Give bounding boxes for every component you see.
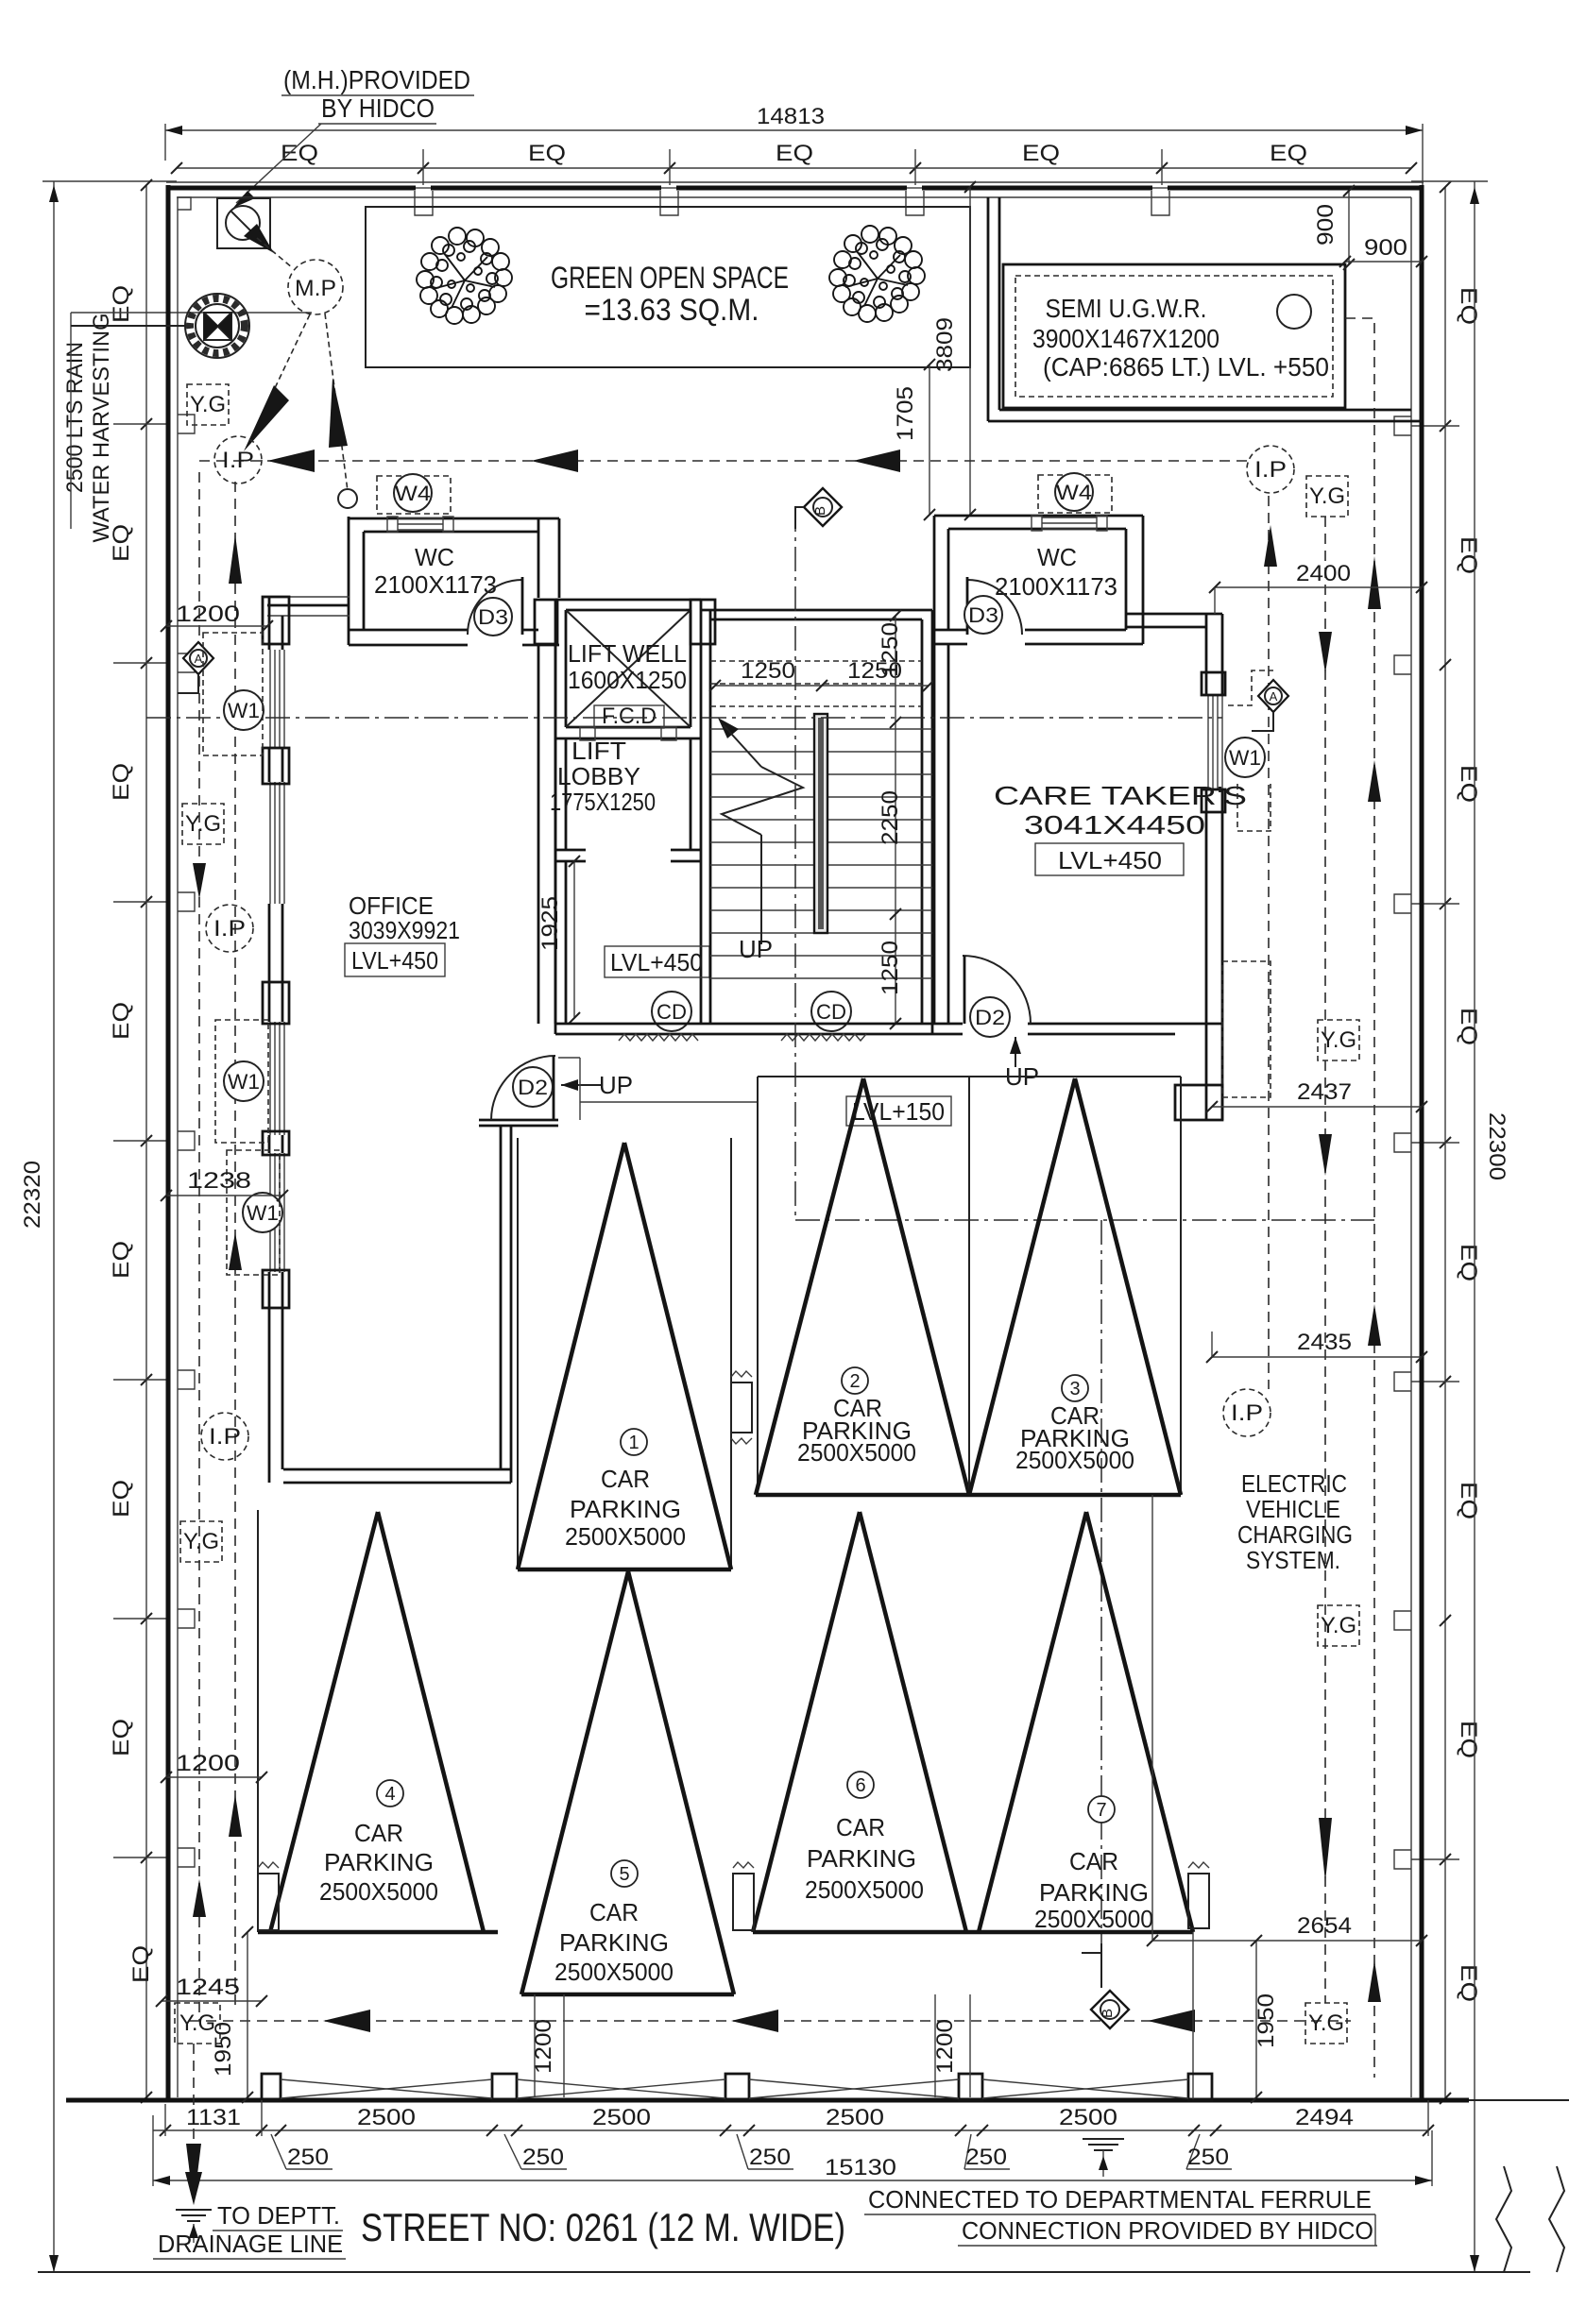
svg-text:UP: UP	[599, 1071, 633, 1099]
svg-text:250: 250	[749, 2145, 791, 2170]
parking stall 2	[756, 1077, 969, 1495]
building south wall (core strip)	[555, 1024, 1222, 1034]
LVL+150 box	[846, 1096, 951, 1126]
svg-text:CD: CD	[657, 1000, 687, 1024]
dim 1200 left lower	[161, 1751, 267, 1783]
svg-text:2654: 2654	[1297, 1913, 1352, 1939]
svg-text:2500X5000: 2500X5000	[805, 1875, 924, 1904]
svg-text:W1: W1	[1229, 746, 1261, 770]
dim 15130	[153, 2115, 1432, 2186]
main EW centerline	[146, 717, 1222, 719]
svg-text:2500X5000: 2500X5000	[565, 1522, 686, 1551]
svg-text:2250: 2250	[878, 790, 903, 845]
LVL+450 box core	[605, 946, 709, 977]
MH square symbol	[217, 198, 274, 253]
svg-text:I.P: I.P	[1231, 1400, 1263, 1426]
svg-text:I.P: I.P	[1254, 457, 1287, 483]
stair up arrow line	[718, 718, 803, 963]
SEMI UGWR tank box	[1003, 264, 1345, 408]
svg-text:1250: 1250	[741, 658, 795, 684]
svg-text:PARKING: PARKING	[807, 1844, 916, 1873]
svg-text:1200: 1200	[176, 1751, 240, 1776]
TO DEPTT note	[153, 2201, 346, 2259]
svg-text:2500X5000: 2500X5000	[797, 1438, 916, 1467]
svg-text:TO DEPTT.: TO DEPTT.	[217, 2201, 340, 2230]
office wing north wall	[263, 597, 350, 644]
svg-text:M.P: M.P	[295, 276, 336, 301]
svg-text:EQ: EQ	[1456, 1244, 1481, 1281]
pillar between stalls 1-2	[731, 1371, 752, 1444]
svg-text:LOBBY: LOBBY	[557, 762, 640, 790]
YG box right lower	[1318, 1605, 1359, 1646]
svg-text:1950: 1950	[211, 2022, 236, 2077]
break symbol right	[1469, 2100, 1569, 2272]
dim 1705 vertical	[893, 359, 935, 520]
right EQ dimension line	[1411, 181, 1481, 2104]
door D3 right	[964, 577, 1022, 635]
YG box left 1	[187, 384, 229, 425]
W1 circle left 1	[203, 633, 264, 755]
svg-text:WC: WC	[415, 543, 454, 571]
svg-text:1245: 1245	[176, 1975, 240, 2000]
WC right room walls	[934, 516, 1143, 644]
svg-text:2500: 2500	[1059, 2105, 1117, 2130]
svg-text:CD: CD	[816, 1000, 846, 1024]
W1 circle right	[1225, 738, 1271, 831]
svg-text:7: 7	[1096, 1800, 1106, 1821]
stair dim vertical 1250/2250/1250	[878, 610, 903, 1029]
svg-text:1131: 1131	[186, 2105, 241, 2130]
dim 2437 right	[1206, 1079, 1427, 1112]
svg-text:2500X5000: 2500X5000	[319, 1877, 438, 1906]
tree right	[829, 226, 925, 322]
svg-text:2435: 2435	[1297, 1330, 1352, 1355]
svg-text:3041X4450: 3041X4450	[1024, 810, 1205, 840]
svg-text:B: B	[1100, 2009, 1116, 2018]
WC right window W4	[1032, 516, 1107, 531]
svg-text:F.C.D: F.C.D	[602, 704, 657, 729]
compound wall / street edge bottom	[66, 2098, 1469, 2103]
dim 2435 right	[1206, 1330, 1427, 1363]
svg-text:2500X5000: 2500X5000	[554, 1958, 674, 1986]
lower lobby room walls	[555, 861, 701, 1034]
svg-text:I.P: I.P	[209, 1424, 241, 1450]
rain water harvesting note (rotated)	[62, 313, 312, 543]
IP circle left 1	[214, 436, 262, 483]
YG box right top	[1306, 476, 1348, 517]
svg-text:15130: 15130	[825, 2155, 896, 2180]
svg-text:STREET NO: 0261 (12 M. WIDE): STREET NO: 0261 (12 M. WIDE)	[361, 2205, 845, 2249]
svg-text:LIFT: LIFT	[571, 737, 626, 765]
svg-text:CONNECTED TO DEPARTMENTAL FERR: CONNECTED TO DEPARTMENTAL FERRULE	[868, 2185, 1372, 2214]
svg-text:250: 250	[287, 2145, 329, 2170]
SEMI UGWR enclosure walls	[988, 197, 1422, 421]
top dimension line 14813	[165, 104, 1423, 185]
svg-text:LVL+150: LVL+150	[852, 1097, 945, 1126]
dashed box right wall lower	[1222, 961, 1271, 1097]
rain harvesting pit symbol	[71, 294, 249, 358]
compound wall top	[166, 182, 1424, 197]
svg-text:250: 250	[522, 2145, 564, 2170]
svg-text:EQ: EQ	[109, 1719, 134, 1756]
top EQ dimension line	[171, 141, 1417, 185]
YG box right bottom	[1305, 2003, 1347, 2044]
door D2 left	[479, 1056, 633, 1126]
svg-text:1950: 1950	[1253, 1993, 1279, 2048]
svg-text:W4: W4	[395, 482, 431, 505]
lift lobby walls	[555, 738, 701, 861]
svg-text:Y.G: Y.G	[1321, 1027, 1356, 1053]
svg-text:Y.G: Y.G	[183, 1529, 219, 1554]
svg-text:VEHICLE: VEHICLE	[1246, 1495, 1340, 1523]
office south wall	[283, 1469, 511, 1483]
central NS centerline	[795, 507, 1374, 1943]
svg-text:EQ: EQ	[128, 1945, 154, 1983]
pillar left of stall 4	[258, 1862, 279, 1930]
svg-text:EQ: EQ	[1456, 765, 1481, 803]
parking stall 7	[979, 1512, 1193, 1933]
svg-text:EQ: EQ	[1456, 287, 1481, 325]
svg-text:3039X9921: 3039X9921	[349, 916, 460, 944]
svg-text:1200: 1200	[531, 2019, 556, 2074]
A diamond right	[1228, 670, 1288, 731]
svg-text:LVL+450: LVL+450	[610, 948, 703, 976]
care taker room walls	[934, 614, 1222, 1120]
svg-text:B: B	[812, 506, 828, 516]
svg-text:2100X1173: 2100X1173	[374, 570, 497, 599]
dim 1238 left	[161, 1168, 288, 1201]
drain line horizontal bottom	[189, 2010, 1351, 2032]
svg-text:2400: 2400	[1296, 561, 1351, 586]
svg-text:EQ: EQ	[1456, 1964, 1481, 2002]
left wall column notches	[178, 415, 195, 1867]
svg-text:A: A	[195, 652, 203, 666]
MP circle	[288, 260, 343, 314]
B symbol bottom	[1082, 1943, 1129, 2028]
dashed leaders MH-MP-IP	[244, 238, 357, 508]
svg-text:LVL+450: LVL+450	[351, 946, 438, 975]
svg-text:CAR: CAR	[601, 1465, 650, 1493]
svg-text:Y.G: Y.G	[1309, 483, 1345, 509]
MH note top-left	[233, 65, 474, 208]
pillar right of stall 7	[1188, 1862, 1209, 1928]
svg-text:6: 6	[855, 1775, 865, 1796]
care taker window W1 right	[1202, 672, 1225, 812]
svg-text:900: 900	[1364, 235, 1407, 261]
svg-text:1250: 1250	[878, 622, 903, 677]
svg-text:1: 1	[628, 1433, 639, 1453]
dim 1245 left bottom	[156, 1975, 267, 2007]
stair center rail	[814, 714, 827, 933]
svg-text:D2: D2	[975, 1006, 1005, 1029]
dim 3809 vertical	[932, 181, 976, 520]
threshold mats zigzag	[619, 1034, 866, 1041]
svg-text:4: 4	[384, 1784, 395, 1805]
svg-text:(CAP:6865 LT.) LVL. +550: (CAP:6865 LT.) LVL. +550	[1043, 352, 1329, 382]
dim 1950 left vertical	[211, 1926, 253, 2103]
svg-text:3: 3	[1069, 1379, 1080, 1399]
dim 900 horizontal right	[1339, 235, 1427, 267]
compound wall right	[1411, 185, 1422, 2102]
svg-text:2494: 2494	[1295, 2105, 1354, 2130]
lift well walls	[555, 600, 701, 740]
stair treads	[710, 729, 932, 978]
parking stall 3	[969, 1077, 1181, 1495]
dim 1200 bottom left vertical	[531, 1994, 564, 2097]
svg-text:Y.G: Y.G	[185, 811, 221, 837]
YG box left 3	[180, 1521, 222, 1562]
svg-text:CAR: CAR	[589, 1898, 639, 1926]
left EQ dimension line	[109, 179, 166, 2103]
svg-text:1775X1250: 1775X1250	[550, 788, 656, 816]
right court boundary	[1151, 1495, 1153, 1941]
svg-text:EQ: EQ	[528, 141, 566, 166]
svg-text:PARKING: PARKING	[559, 1928, 669, 1957]
svg-text:SYSTEM.: SYSTEM.	[1246, 1546, 1340, 1574]
svg-text:2500: 2500	[592, 2105, 651, 2130]
gate posts bottom	[262, 2074, 1212, 2100]
lift well corner columns	[535, 600, 715, 644]
svg-text:EQ: EQ	[1456, 1008, 1481, 1045]
svg-text:ELECTRIC: ELECTRIC	[1241, 1469, 1347, 1498]
svg-text:1250: 1250	[878, 941, 903, 995]
left yard dashed verticals	[193, 472, 242, 2142]
svg-text:14813: 14813	[757, 104, 825, 129]
svg-text:D3: D3	[478, 605, 508, 629]
drainage arrow and ground left	[176, 2144, 212, 2243]
drain line horizontal top	[199, 450, 1247, 472]
EV charging text	[1237, 1469, 1353, 1574]
svg-text:I.P: I.P	[213, 916, 246, 941]
svg-text:DRAINAGE LINE: DRAINAGE LINE	[158, 2230, 343, 2258]
IP circle right lower	[1223, 1389, 1271, 1436]
IP circle left 2	[206, 905, 253, 952]
top wall column notches	[178, 191, 1169, 215]
svg-text:D3: D3	[968, 603, 998, 627]
svg-text:PARKING: PARKING	[570, 1495, 681, 1523]
svg-text:W1: W1	[228, 699, 260, 722]
svg-text:5: 5	[619, 1864, 629, 1885]
svg-text:22300: 22300	[1484, 1112, 1509, 1180]
svg-text:Y.G: Y.G	[1321, 1613, 1356, 1638]
svg-text:2500X5000: 2500X5000	[1015, 1446, 1134, 1474]
compound wall left	[168, 185, 178, 2102]
parking stall 1	[518, 1138, 731, 1569]
svg-text:250: 250	[965, 2145, 1007, 2170]
W4 tag left	[377, 474, 451, 514]
svg-text:W1: W1	[247, 1201, 279, 1225]
svg-text:A: A	[1270, 689, 1278, 704]
right outer dimension line 22300	[1411, 181, 1509, 2272]
svg-text:250: 250	[1187, 2145, 1229, 2170]
bottom dim row	[153, 2100, 1434, 2136]
svg-text:CAR: CAR	[836, 1813, 885, 1841]
svg-text:D2: D2	[518, 1076, 548, 1099]
parking stall 5	[521, 1571, 734, 1994]
svg-text:EQ: EQ	[1270, 141, 1307, 166]
IP circle right top	[1247, 446, 1294, 493]
svg-text:LVL+450: LVL+450	[1058, 846, 1162, 874]
svg-text:(M.H.)PROVIDED: (M.H.)PROVIDED	[283, 65, 470, 94]
svg-text:CONNECTION PROVIDED BY HIDCO: CONNECTION PROVIDED BY HIDCO	[962, 2216, 1373, 2245]
dim 1200 bottom right vertical	[932, 1994, 970, 2097]
CD circle left	[652, 992, 691, 1031]
ferrule note right	[864, 2185, 1377, 2246]
dim 2400 right	[1209, 561, 1427, 614]
svg-text:WATER HARVESTING: WATER HARVESTING	[89, 314, 114, 543]
IP circle left 3	[201, 1413, 248, 1460]
svg-text:WC: WC	[1037, 543, 1077, 571]
svg-text:I.P: I.P	[222, 448, 254, 473]
svg-text:3809: 3809	[932, 317, 958, 372]
svg-text:PARKING: PARKING	[1039, 1878, 1149, 1907]
WC left room walls	[349, 517, 559, 645]
parking court top edge	[758, 1076, 1181, 1077]
svg-text:UP: UP	[739, 935, 773, 963]
svg-text:LIFT WELL: LIFT WELL	[568, 639, 687, 668]
svg-text:EQ: EQ	[109, 1002, 134, 1040]
W1 circle left 2	[215, 1020, 268, 1143]
svg-text:EQ: EQ	[1456, 1482, 1481, 1519]
svg-text:EQ: EQ	[1456, 536, 1481, 574]
svg-text:1238: 1238	[187, 1168, 251, 1194]
W4 tag right	[1038, 473, 1112, 513]
svg-text:3900X1467X1200: 3900X1467X1200	[1032, 324, 1219, 353]
svg-text:2: 2	[849, 1371, 860, 1392]
tree left	[417, 228, 512, 324]
office west wall with windows	[263, 597, 289, 1483]
YG box right mid	[1318, 1020, 1359, 1060]
svg-text:W1: W1	[228, 1070, 260, 1094]
svg-text:EQ: EQ	[109, 763, 134, 801]
dim 1950 right vertical	[1251, 1935, 1279, 2103]
parking stall 4	[258, 1510, 498, 1932]
svg-text:Y.G: Y.G	[190, 392, 226, 417]
svg-text:2500: 2500	[357, 2105, 416, 2130]
stair dim 1250 1250 horizontal	[709, 658, 934, 691]
svg-text:=13.63 SQ.M.: =13.63 SQ.M.	[585, 293, 759, 327]
left outer dimension line 22320	[20, 181, 177, 2272]
office east wall lower	[501, 1126, 511, 1483]
A diamond left	[178, 642, 213, 693]
YG box left bottom	[175, 2003, 220, 2044]
svg-text:EQ: EQ	[776, 141, 813, 166]
svg-text:900: 900	[1313, 204, 1339, 246]
svg-text:2437: 2437	[1297, 1079, 1352, 1105]
CD circle right	[811, 992, 851, 1031]
svg-text:1200: 1200	[932, 2019, 958, 2074]
svg-text:22320: 22320	[20, 1161, 45, 1229]
svg-text:EQ: EQ	[109, 1241, 134, 1279]
W1 circle left 3	[227, 1150, 282, 1275]
svg-text:EQ: EQ	[1456, 1721, 1481, 1758]
stair treads dashed upper	[710, 661, 922, 706]
street lower line	[38, 2271, 1530, 2273]
svg-text:1600X1250: 1600X1250	[568, 666, 687, 694]
svg-text:SEMI U.G.W.R.: SEMI U.G.W.R.	[1046, 294, 1207, 323]
250 leaders	[271, 2134, 1232, 2170]
svg-text:W4: W4	[1056, 481, 1092, 504]
svg-text:CHARGING: CHARGING	[1237, 1520, 1353, 1549]
lift well cross	[566, 610, 691, 727]
WC left window W4	[387, 517, 453, 532]
svg-text:2100X1173: 2100X1173	[995, 572, 1117, 601]
stair hall walls	[701, 610, 932, 1034]
door D3 left	[468, 577, 522, 636]
right wall column notches	[1394, 416, 1411, 1869]
svg-text:EQ: EQ	[1022, 141, 1060, 166]
ground symbol right	[1083, 2139, 1124, 2177]
svg-text:2500 LTS RAIN: 2500 LTS RAIN	[62, 342, 88, 493]
YG box left 2	[182, 804, 224, 844]
green open space rectangle	[366, 207, 970, 367]
svg-text:PARKING: PARKING	[324, 1848, 434, 1876]
pillar between stalls 5-6	[733, 1862, 754, 1930]
gate X panels bottom	[281, 2079, 1188, 2098]
door D2 right	[963, 956, 1039, 1091]
svg-text:BY HIDCO: BY HIDCO	[321, 93, 435, 123]
svg-text:1705: 1705	[893, 386, 918, 441]
svg-text:2500: 2500	[826, 2105, 884, 2130]
svg-text:1200: 1200	[176, 602, 240, 627]
dim 900 vertical right	[1313, 185, 1355, 270]
parking stall 6	[753, 1512, 1193, 1932]
office upper east wall	[538, 645, 555, 1024]
svg-text:CAR: CAR	[1069, 1847, 1118, 1875]
svg-text:Y.G: Y.G	[1308, 2010, 1344, 2036]
svg-text:CARE TAKER'S: CARE TAKER'S	[994, 781, 1247, 810]
right yard dashed verticals	[1264, 318, 1381, 2078]
svg-text:1925: 1925	[537, 896, 563, 951]
dim 2654 right	[1147, 1913, 1427, 1946]
svg-text:EQ: EQ	[109, 1480, 134, 1518]
B symbol top	[795, 488, 842, 529]
FCD box	[594, 704, 664, 729]
svg-text:CAR: CAR	[354, 1819, 403, 1847]
svg-text:2500X5000: 2500X5000	[1034, 1905, 1153, 1933]
dim 1925	[537, 856, 580, 1024]
svg-text:GREEN OPEN SPACE: GREEN OPEN SPACE	[551, 261, 789, 295]
dim 1200 left top	[161, 602, 273, 632]
